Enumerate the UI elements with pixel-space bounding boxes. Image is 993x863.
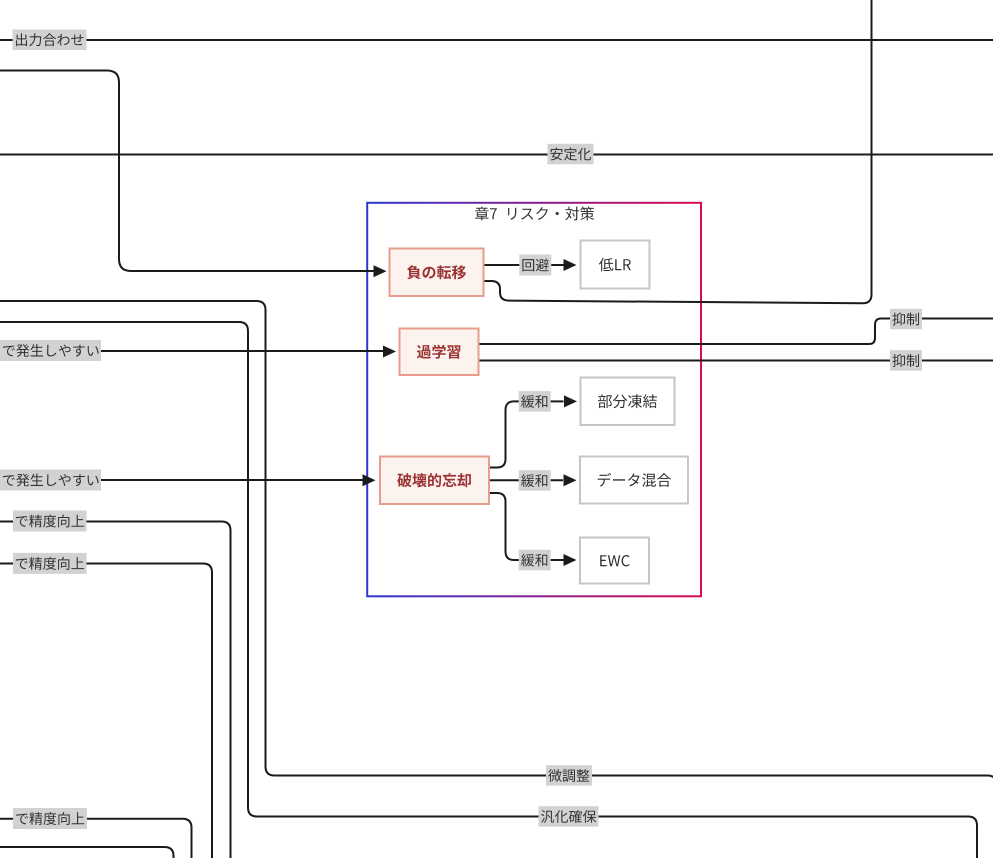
edge label 出力合わせ	[13, 30, 87, 51]
edge label 微調整	[546, 765, 592, 786]
node 破壊的忘却	[380, 457, 489, 505]
edge label 緩和 #1	[519, 391, 551, 412]
node 負の転移	[390, 249, 484, 297]
cluster 章7 リスク・対策	[367, 203, 701, 597]
node データ混合	[580, 457, 688, 504]
edge label 安定化	[548, 144, 594, 165]
wire into 負の転移	[0, 71, 387, 278]
edge label 汎化確保	[539, 806, 599, 827]
wire 破壊的忘却 to 部分凍結	[489, 395, 577, 467]
wire で発生しやすい #2 to 破壊的忘却	[0, 474, 376, 486]
wire 負の転移 to top-right vertical	[484, 0, 872, 303]
wire 汎化確保 long loop	[0, 322, 977, 858]
wire で精度向上 #2 down	[0, 564, 212, 859]
wire で精度向上 #1 down	[0, 522, 231, 859]
wire 安定化 line	[0, 154, 993, 156]
wire 微調整 long loop	[0, 301, 993, 858]
edge label で発生しやすい #2	[0, 470, 101, 491]
edge label 緩和 #3	[519, 550, 551, 571]
wire で精度向上 #3 down	[0, 819, 192, 858]
wire bottom-left line down	[0, 847, 174, 858]
wire 破壊的忘却 to EWC	[489, 493, 577, 566]
edge label 回避	[519, 255, 551, 276]
node 低LR	[581, 241, 650, 289]
edge label で精度向上 #3	[13, 808, 87, 829]
node 過学習	[400, 329, 479, 376]
node 部分凍結	[581, 378, 675, 426]
wire 負の転移 to 低LR	[484, 259, 577, 271]
edge label 緩和 #2	[519, 470, 551, 491]
edge label 抑制 #1	[890, 309, 922, 330]
wire 出力合わせ line	[0, 39, 993, 41]
node EWC	[580, 538, 649, 584]
wire 過学習 to 抑制 #1	[479, 319, 993, 345]
wire で発生しやすい #1 to 過学習	[0, 346, 396, 358]
wire 破壊的忘却 to データ混合	[489, 474, 577, 486]
edge label で精度向上 #1	[13, 511, 87, 532]
wire 過学習 to 抑制 #2	[479, 360, 993, 362]
edge label 抑制 #2	[890, 350, 922, 371]
edge label で精度向上 #2	[13, 553, 87, 574]
edge label で発生しやすい #1	[0, 340, 101, 361]
